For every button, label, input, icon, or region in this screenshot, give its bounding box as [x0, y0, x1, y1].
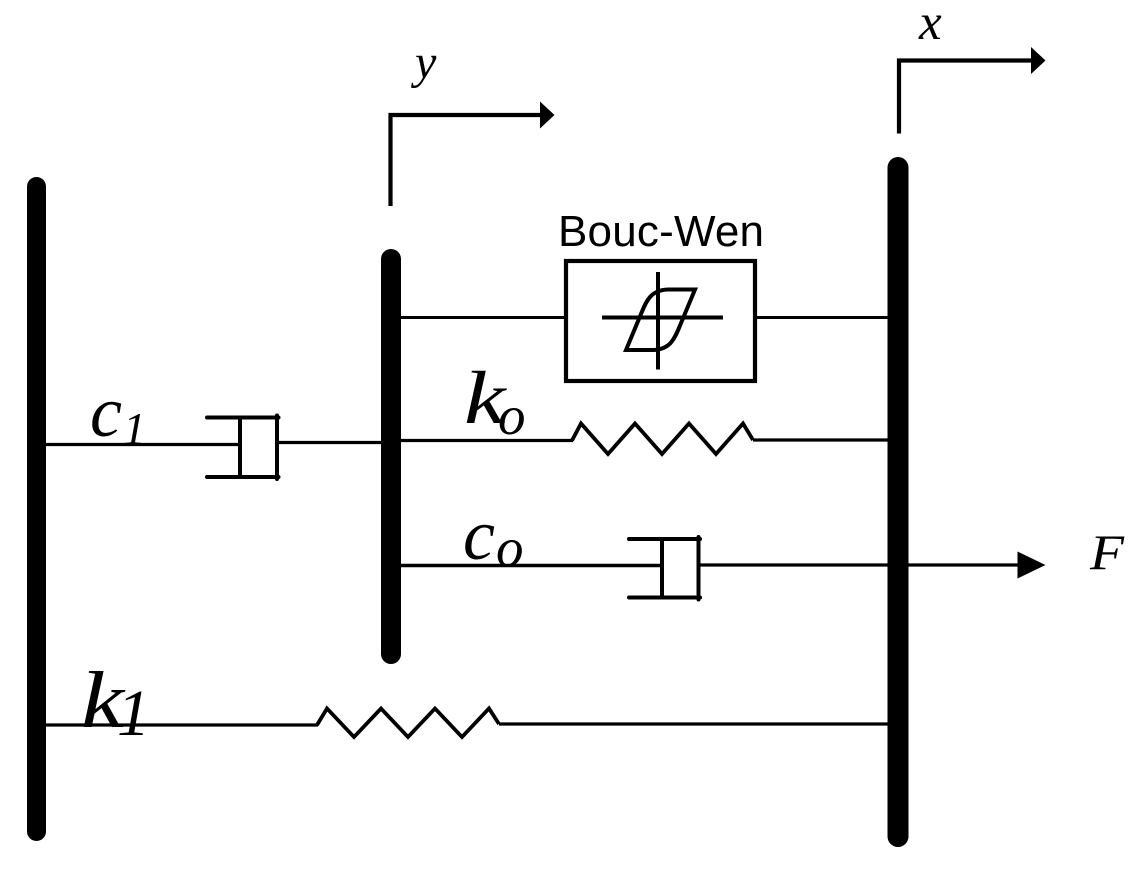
damper c1 piston plate	[238, 418, 242, 478]
damper co cylinder	[629, 537, 700, 600]
wire middle bar to Bouc-Wen box	[399, 316, 566, 319]
wire middle bar to spring ko	[399, 439, 573, 442]
hysteresis loop	[626, 290, 695, 351]
wire damper co through right bar to force arrow	[698, 563, 1018, 566]
damper co piston plate	[660, 539, 664, 598]
wire Bouc-Wen box to right bar	[755, 316, 890, 319]
svg-text:F: F	[1089, 524, 1125, 580]
svg-text:Bouc-Wen: Bouc-Wen	[558, 207, 764, 256]
svg-text:1: 1	[123, 403, 146, 454]
svg-text:o: o	[498, 385, 526, 446]
svg-text:x: x	[918, 0, 942, 51]
hysteresis icon horizontal axis	[602, 316, 723, 320]
svg-text:y: y	[410, 36, 437, 89]
force arrow head F	[1018, 552, 1046, 579]
spring ko	[572, 424, 753, 455]
wire middle bar to damper co piston rod	[399, 564, 662, 568]
hysteresis icon vertical axis	[656, 272, 660, 370]
wire spring k1 to right bar	[499, 722, 890, 725]
wall bar right (node x plate)	[888, 168, 909, 837]
wall bar middle (node y plate)	[381, 259, 401, 654]
svg-text:o: o	[496, 517, 524, 578]
wire damper c1 to middle bar	[277, 441, 391, 444]
svg-text:c: c	[463, 495, 495, 575]
axis arrow y	[391, 102, 555, 207]
svg-text:1: 1	[117, 677, 150, 750]
axis arrow x	[899, 47, 1046, 134]
wire spring ko to right bar	[753, 438, 890, 441]
wire left bar to damper c1 piston rod	[36, 443, 240, 446]
damper c1 cylinder	[207, 416, 279, 480]
spring k1	[317, 709, 499, 738]
wall bar left (input plate)	[27, 187, 46, 832]
svg-text:c: c	[90, 372, 122, 452]
wire left bar to spring k1	[36, 723, 318, 726]
Bouc-Wen box U1	[566, 261, 755, 381]
